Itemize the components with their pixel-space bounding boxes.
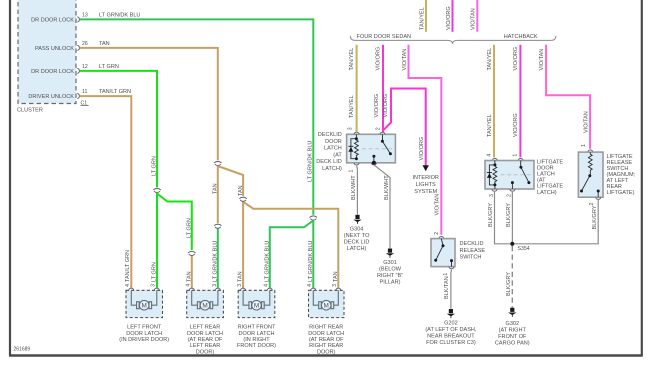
svg-text:TAN/YEL: TAN/YEL [349,48,355,71]
svg-text:S354: S354 [518,246,530,252]
svg-text:BLK/GRY: BLK/GRY [506,203,512,227]
right front door latch box M3 [238,290,275,317]
wire TAN below connector to left rear door latch pin 4 [191,256,193,289]
svg-text:LIFTGATE): LIFTGATE) [607,190,635,196]
svg-text:VIO/ORG: VIO/ORG [513,47,519,71]
svg-text:SYSTEM: SYSTEM [414,189,437,195]
ground G304 label [344,227,370,253]
svg-text:LT GRN: LT GRN [152,156,158,176]
svg-text:LATCH): LATCH) [347,246,367,252]
wire VIO/TAN from top [476,0,478,32]
splice on LT GRN/DK BLU wire [309,215,317,221]
svg-text:DECK LID: DECK LID [316,159,342,165]
liftgate release switch resistor [588,152,592,175]
svg-text:261689: 261689 [14,347,31,353]
svg-text:2: 2 [434,232,440,235]
ground G202 label [425,321,477,347]
wire VIO/TAN sedan branch to decklid release switch [409,45,442,235]
decklid latch pin 2 arc [380,132,385,134]
svg-text:12: 12 [82,64,88,70]
brace splitting sedan and hatchback variants [350,36,556,44]
svg-text:LIGHTS: LIGHTS [416,182,436,188]
wire VIO/ORG sedan branch to decklid latch pin 2 [382,45,384,132]
wire VIO/ORG from top [452,0,454,32]
liftgate latch diode [487,173,492,178]
liftgate latch switch dots [511,166,531,184]
svg-text:PASS UNLOCK: PASS UNLOCK [35,46,74,52]
svg-text:TAN/YEL: TAN/YEL [487,114,493,137]
svg-text:TAN: TAN [333,271,339,282]
decklid latch coil junction dots [355,137,358,140]
left front door latch motor [131,290,157,310]
svg-text:RIGHT REAR: RIGHT REAR [309,343,343,349]
liftgate door latch pin 4 arc [492,158,497,160]
svg-text:DR DOOR LOCK: DR DOOR LOCK [31,18,74,24]
wire TAN branch to splice C [218,166,243,288]
svg-text:AT LEFT: AT LEFT [607,178,629,184]
liftgate door latch connector box U2 [485,161,534,190]
liftgate door latch label [537,160,563,196]
svg-text:CLUSTER: CLUSTER [17,108,43,114]
svg-text:4: 4 [487,154,493,157]
wire VIO/TAN hatchback branch to liftgate release switch [546,45,590,149]
liftgate release switch pin 1 arc [588,150,593,152]
svg-text:G301: G301 [383,260,397,266]
ground G202 [447,309,455,318]
svg-text:DECKLID: DECKLID [318,132,342,138]
svg-text:2: 2 [375,127,381,130]
svg-text:LIFTGATE: LIFTGATE [607,154,633,160]
svg-text:VIO/TAN: VIO/TAN [539,49,545,71]
liftgate latch pin 3 arc bottom [492,189,497,191]
svg-text:LEFT REAR: LEFT REAR [190,343,220,349]
decklid release switch contacts [436,239,452,267]
right rear door latch box M4 [309,290,345,317]
svg-text:G302: G302 [506,321,520,327]
svg-text:SWITCH: SWITCH [460,255,482,261]
svg-text:BLK/GRY: BLK/GRY [592,205,598,229]
wire LT GRN branch to connector then left rear door latch pin 4 [157,194,192,251]
decklid latch switch [374,134,391,163]
svg-text:G202: G202 [444,321,458,327]
decklid release switch pin 1 arc [449,267,454,269]
decklid latch pin 1 arc bottom [354,163,359,165]
svg-text:TAN/YEL: TAN/YEL [349,95,355,118]
svg-text:(NEXT TO: (NEXT TO [344,233,370,239]
svg-text:NEAR BREAKOUT: NEAR BREAKOUT [427,334,475,340]
svg-text:LT GRN/DK BLU: LT GRN/DK BLU [308,241,314,282]
right rear door latch pin 3 arc [336,288,341,290]
wire VIO/ORG branch to interior lights system [384,89,426,166]
svg-text:2: 2 [506,194,512,197]
svg-text:LIFTGATE: LIFTGATE [537,160,563,166]
svg-text:VIO/ORG: VIO/ORG [419,137,425,161]
left front door latch pin 4 arc [129,288,134,290]
svg-text:TAN/LT GRN: TAN/LT GRN [125,250,131,282]
decklid latch bottom pin arc [371,163,376,165]
svg-text:DECKLID: DECKLID [460,241,484,247]
svg-text:LT GRN/DK BLU: LT GRN/DK BLU [99,12,140,18]
svg-text:DOOR LATCH: DOOR LATCH [126,331,162,337]
svg-text:3: 3 [151,284,157,287]
wire LT GRN/DK BLU below connector to left rear door latch pin 3 [217,229,219,289]
decklid release switch label [460,241,486,261]
svg-text:DECK LID: DECK LID [344,240,370,246]
svg-text:FRONT DOOR): FRONT DOOR) [237,343,276,349]
left rear door latch pin 4 arc [189,288,194,290]
svg-text:LATCH): LATCH) [322,166,342,172]
wire BLK/GRY dashed S354 to G302 [511,246,513,308]
left rear door latch pin 3 arc [215,288,220,290]
wire branch LT GRN/DK BLU to right front door latch [270,221,314,289]
liftgate release switch dots [580,174,600,192]
svg-text:1: 1 [443,273,449,276]
svg-text:VIO/ORG: VIO/ORG [446,6,452,30]
svg-text:TAN/YEL: TAN/YEL [487,48,493,71]
svg-text:M: M [324,303,329,310]
svg-text:LT GRN/DK BLU: LT GRN/DK BLU [264,241,270,282]
svg-text:3: 3 [332,284,338,287]
right rear door latch motor [313,290,338,310]
svg-text:TAN: TAN [212,183,218,194]
svg-text:(AT REAR OF: (AT REAR OF [188,337,223,343]
svg-text:DRIVER UNLOCK: DRIVER UNLOCK [28,94,74,100]
decklid release switch pin 2 arc [439,237,444,239]
svg-text:11: 11 [82,89,87,95]
svg-text:M: M [254,303,259,310]
left rear door latch motor [192,290,218,310]
liftgate release switch label [607,154,636,196]
splice on TAN wire [214,160,222,166]
liftgate door latch pin 1 arc [518,158,523,160]
svg-text:4: 4 [307,284,313,287]
wire TAN/LT GRN from cluster pin 11 to left front door latch pin 4 [80,96,132,288]
svg-text:DOOR LATCH: DOOR LATCH [308,331,344,337]
cluster pin arcs [77,17,79,99]
liftgate release switch pin 2 arc [596,197,601,199]
liftgate latch switch [512,161,529,190]
svg-text:LT GRN/DK BLU: LT GRN/DK BLU [308,141,314,182]
svg-text:(IN DRIVER DOOR): (IN DRIVER DOOR) [119,337,169,343]
svg-text:VIO/TAN: VIO/TAN [584,111,590,133]
svg-text:1: 1 [349,170,355,173]
cluster pin labels [28,18,74,101]
ground G304 [353,215,361,224]
svg-text:2: 2 [589,203,595,206]
right front door latch motor [243,290,270,310]
svg-text:(BELOW: (BELOW [379,267,402,273]
svg-text:LT GRN: LT GRN [99,64,119,70]
ground G302 label [495,321,530,347]
liftgate latch coil junction dots [493,163,496,166]
svg-text:LATCH: LATCH [324,146,342,152]
liftgate latch pin 2 arc bottom [510,189,515,191]
svg-text:M: M [142,303,147,310]
decklid release switch box S1 [431,239,455,267]
svg-text:LT GRN: LT GRN [186,218,192,238]
svg-text:PILLAR): PILLAR) [380,280,401,286]
wire TAN branch to right rear door latch pin 3 [243,202,338,288]
svg-text:4: 4 [186,284,192,287]
svg-text:(AT: (AT [333,152,342,158]
svg-text:VIO/TAN: VIO/TAN [471,8,477,30]
decklid latch pin 3 arc [354,132,359,134]
wire LT GRN/DK BLU from cluster pin 13 to splice and right rear door latch [80,19,314,288]
svg-text:3: 3 [347,127,353,130]
svg-text:3: 3 [212,284,218,287]
svg-text:FOR CLUSTER C3): FOR CLUSTER C3) [426,340,476,346]
left rear door latch box M2 [187,290,224,317]
ground G302 [508,308,516,317]
svg-text:3: 3 [237,284,243,287]
svg-text:DOOR): DOOR) [317,349,336,355]
svg-text:HATCHBACK: HATCHBACK [504,34,538,40]
svg-text:BLK/GRY: BLK/GRY [488,203,494,227]
splice on TAN branch wire [239,196,247,202]
svg-text:LT GRN/DK BLU: LT GRN/DK BLU [212,241,218,282]
svg-text:M: M [202,303,207,310]
wire TAN/YEL from top [425,0,427,32]
svg-text:G304: G304 [350,227,364,233]
decklid latch mechanical link dashed [362,148,392,150]
svg-text:RIGHT REAR: RIGHT REAR [309,325,343,331]
svg-text:4: 4 [264,284,270,287]
wire BLK/GRY liftgate release switch pin 2 to S354 [514,200,598,244]
decklid release switch dots [434,244,453,262]
inline connector TAN to LT GRN/DK BLU [214,223,222,229]
decklid latch solenoid coil [351,134,358,158]
svg-text:26: 26 [82,41,88,47]
svg-text:CARGO PAN): CARGO PAN) [495,341,530,347]
svg-text:RELEASE: RELEASE [460,248,486,254]
svg-text:VIO/ORG: VIO/ORG [374,94,380,118]
right front door latch pin 3 arc [241,288,246,290]
svg-text:1: 1 [581,144,587,147]
wire BLK/GRY liftgate latch pin 3 to S354 [495,192,511,244]
right front door latch label [237,325,276,350]
decklid door latch connector box U1 [347,134,396,163]
splice S354 [510,242,514,246]
inline connector LT GRN to TAN [188,250,196,256]
right rear door latch label [308,325,344,356]
left rear door latch label [187,325,223,356]
svg-text:DOOR LATCH: DOOR LATCH [187,331,223,337]
svg-text:DR DOOR LOCK: DR DOOR LOCK [31,69,74,75]
arrow to interior lights system [423,165,429,171]
svg-text:VIO/ORG: VIO/ORG [383,94,389,118]
cluster C1 connector box [18,0,76,104]
svg-text:4: 4 [125,284,131,287]
svg-text:TAN: TAN [186,271,192,282]
decklid latch switch dots [372,140,392,165]
svg-text:(AT REAR OF: (AT REAR OF [309,337,344,343]
svg-text:TAN: TAN [99,41,110,47]
svg-text:LEFT FRONT: LEFT FRONT [127,325,162,331]
connector C1 label [81,100,89,106]
wire BLK/GRY liftgate latch pin 2 to S354 [511,192,513,244]
left front door latch box M1 [126,290,163,317]
svg-text:BLK/GRY: BLK/GRY [506,272,512,296]
wire TAN from cluster pin 26 [80,48,218,223]
svg-text:LIFTGATE: LIFTGATE [537,184,563,190]
svg-text:LATCH: LATCH [537,172,555,178]
ground G301 [386,249,394,258]
svg-text:DOOR): DOOR) [196,349,215,355]
svg-text:RIGHT FRONT: RIGHT FRONT [238,325,276,331]
liftgate latch solenoid coil [489,161,496,190]
left front door latch pin 3 arc [154,288,159,290]
decklid latch diode [348,146,353,151]
svg-text:RIGHT “B”: RIGHT “B” [377,273,403,279]
svg-text:LT GRN: LT GRN [152,262,158,282]
svg-text:TAN/YEL: TAN/YEL [419,7,425,30]
svg-text:(IN RIGHT: (IN RIGHT [243,337,270,343]
wire BLK/WHT decklid latch to G301 [374,165,390,249]
svg-text:BLK/WHT: BLK/WHT [384,175,390,200]
wire LT GRN from cluster pin 12 [80,71,157,288]
decklid latch label [316,132,342,172]
svg-text:(AT RIGHT: (AT RIGHT [499,328,527,334]
svg-text:BLK/TAN: BLK/TAN [444,276,450,299]
svg-text:(AT LEFT OF DASH,: (AT LEFT OF DASH, [425,327,477,333]
svg-text:VIO/TAN: VIO/TAN [435,194,441,216]
svg-text:FOUR DOOR SEDAN: FOUR DOOR SEDAN [357,34,412,40]
interior lights system label [412,175,439,195]
svg-text:TAN/LT GRN: TAN/LT GRN [99,89,131,95]
svg-text:LEFT REAR: LEFT REAR [190,325,220,331]
svg-text:LATCH): LATCH) [537,190,557,196]
svg-text:13: 13 [82,12,88,18]
ground G301 label [377,260,403,286]
svg-text:DOOR: DOOR [325,139,342,145]
wire TAN/YEL sedan branch to decklid latch pin 3 [356,45,358,132]
liftgate release switch contacts [582,176,599,198]
svg-text:BLK/WHT: BLK/WHT [351,175,357,200]
wire TAN/YEL hatchback branch to liftgate latch pin 4 [493,45,495,158]
wire BLK/WHT decklid latch pin 1 to G304 [356,166,359,215]
svg-text:TAN: TAN [238,185,244,196]
wire BLK/TAN to G202 [450,270,453,309]
svg-text:VIO/ORG: VIO/ORG [513,113,519,137]
splice on LT GRN wire [153,187,161,193]
svg-text:VIO/ORG: VIO/ORG [376,47,382,71]
svg-text:VIO/TAN: VIO/TAN [402,49,408,71]
svg-text:FRONT OF: FRONT OF [498,334,527,340]
right front door latch pin 4 arc [267,288,272,290]
svg-text:SWITCH: SWITCH [607,166,629,172]
svg-text:DOOR LATCH: DOOR LATCH [239,331,275,337]
left front door latch label [119,325,169,343]
wire VIO/ORG hatchback branch to liftgate latch pin 1 [519,45,521,158]
liftgate latch mechanical link dashed [501,174,531,176]
svg-text:1: 1 [512,154,518,157]
liftgate release switch box S2 [578,152,603,197]
right rear door latch pin 4 arc [311,288,316,290]
svg-text:INTERIOR: INTERIOR [412,175,439,181]
svg-text:TAN: TAN [238,271,244,282]
